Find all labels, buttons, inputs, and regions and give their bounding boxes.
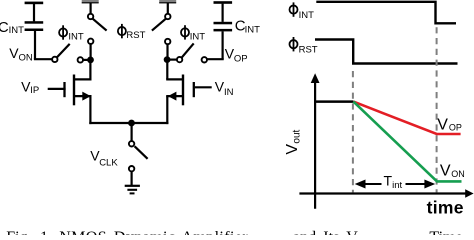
switch phi_RST (left) lever [93,19,107,31]
node V_OP label [225,45,248,64]
wire to VDD bar (left) [89,3,91,14]
svg-text:Fig. 1.: Fig. 1. [6,229,52,235]
switch V_CLK lever [135,146,148,159]
svg-text:V: V [437,117,448,134]
curve V_out common (black) [315,100,353,103]
label phi_INT (right) [181,25,205,43]
switch phi_INT (left) lever [57,44,70,57]
curve V_OP (red) [353,102,460,134]
wire to VDD bar (right) [167,3,169,14]
svg-text:out: out [292,129,303,143]
label phi_RST [118,24,146,41]
switch V_CLK upper contact [129,141,134,146]
label C_INT (right) [235,18,260,36]
wire to ground [131,171,133,185]
svg-text:int: int [392,180,402,191]
capacitor C_INT (left) [25,2,44,59]
wire drain up to reset switch (right) [166,44,168,60]
waveform phi_INT [316,2,456,24]
svg-text:V: V [440,163,451,180]
wire V_ON [34,58,52,60]
svg-text:OP: OP [449,123,462,133]
label V_OP (red) [437,117,462,134]
tail junction node [128,120,135,127]
svg-text:and Its V: and Its V [293,229,358,235]
svg-text:Time: Time [429,229,462,235]
svg-text:IP: IP [30,85,39,96]
label C_INT (left) [0,19,24,36]
label V_CLK [90,148,118,169]
switch phi_RST (right) lower contact [165,39,170,44]
switch phi_RST (left) upper contact [88,14,93,19]
svg-text:RST: RST [126,30,145,41]
label T_int [384,172,403,191]
svg-text:CLK: CLK [99,158,118,169]
label phi_INT (timing) [290,2,315,21]
switch phi_RST (right) upper contact [165,14,170,19]
svg-text:C: C [0,19,9,36]
axis V_out (y-axis) [311,73,320,209]
VDD bar (left) [82,0,99,3]
svg-text:INT: INT [190,32,206,43]
switch phi_INT (right) contact A [177,57,182,62]
svg-text:ON: ON [19,52,33,63]
tail wire [89,122,168,124]
waveform phi_RST [315,40,458,64]
dashed marker line 1 [352,71,354,192]
wire drain-to-contact (right) [167,58,177,60]
svg-text:IN: IN [224,87,234,98]
switch phi_INT (right) lever [182,43,194,57]
transistor M1 (left NMOS, gate V_IP) [48,60,92,124]
node V_IP label [21,78,39,96]
svg-text:NMOS Dynamic Amplifier: NMOS Dynamic Amplifier [59,229,248,235]
switch V_CLK lower contact [129,166,134,171]
capacitor C_INT (right) [214,1,233,59]
wire V_OP [207,58,224,60]
label phi_INT (left) [59,25,84,42]
svg-text:INT: INT [9,25,25,36]
wire contact-to-drain (left) [83,59,91,61]
switch phi_RST (left) lower contact [88,39,93,44]
ground [125,186,140,194]
node V_ON label [9,45,33,63]
switch phi_INT (right) contact B [202,57,207,62]
svg-text:time: time [427,198,464,218]
junction node (right drain) [164,56,171,63]
svg-text:RST: RST [299,44,318,55]
svg-text:INT: INT [299,10,315,21]
T_int interval arrow [355,180,436,189]
switch phi_INT (left) contact A [52,57,57,62]
svg-text:OP: OP [234,53,248,64]
axis time (x-axis) [299,189,473,198]
node V_IN label [215,79,234,99]
switch phi_RST (right) lever [152,19,166,31]
transistor M2 (right NMOS, gate V_IN) [166,60,212,125]
svg-text:V: V [284,144,301,155]
switch phi_INT (left) contact B [78,57,83,62]
svg-text:INT: INT [68,32,84,43]
svg-text:ON: ON [451,169,465,179]
junction node (left drain) [87,57,94,64]
label V_out (rotated) [284,129,303,154]
dashed marker line 2 [436,27,438,192]
wire tail to clock switch [131,123,133,141]
svg-text:INT: INT [245,24,261,35]
label V_ON (green) [440,163,465,180]
label phi_RST (timing) [290,37,318,55]
wire drain up to reset switch (left) [89,44,91,60]
curve V_ON (green) [353,102,461,182]
VDD bar (right) [159,0,176,3]
